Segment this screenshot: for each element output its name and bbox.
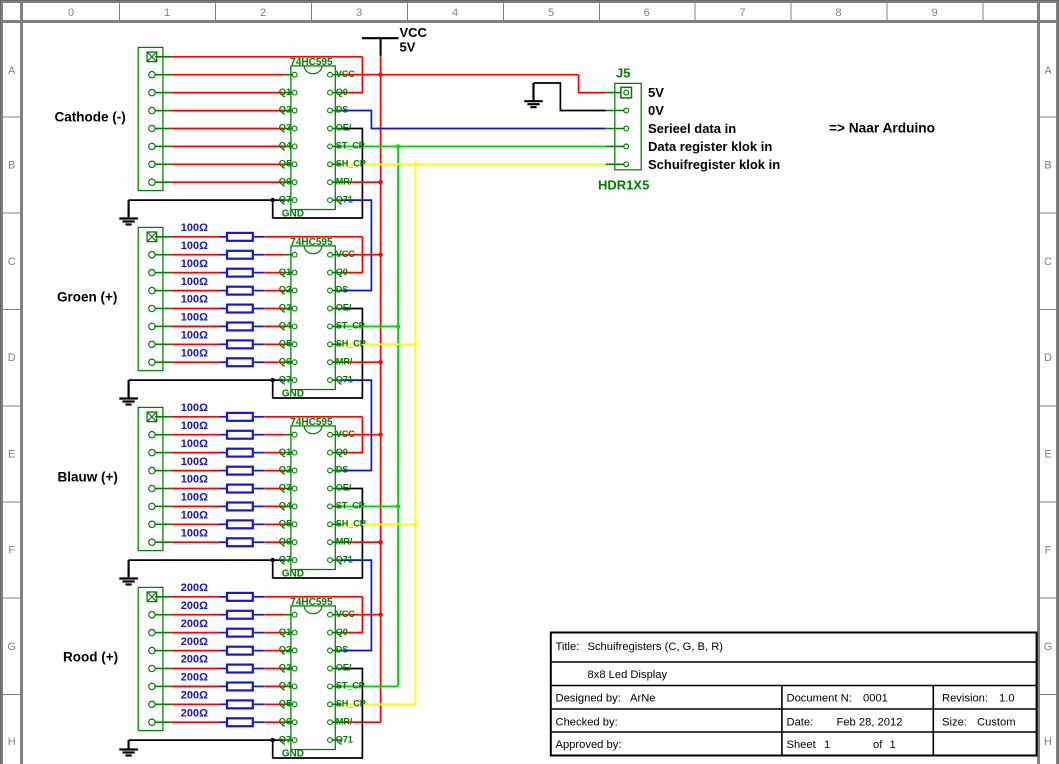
svg-text:Document N:: Document N: (787, 693, 852, 705)
svg-text:Q0: Q0 (336, 267, 348, 277)
svg-text:Q0: Q0 (336, 627, 348, 637)
svg-text:Q4: Q4 (279, 320, 292, 331)
svg-text:F: F (1045, 545, 1052, 557)
svg-text:100Ω: 100Ω (181, 312, 208, 324)
svg-text:OE/: OE/ (336, 303, 352, 313)
svg-text:Q6: Q6 (279, 535, 292, 546)
svg-text:Data register klok in: Data register klok in (648, 139, 772, 154)
svg-text:100Ω: 100Ω (181, 438, 208, 450)
svg-text:5: 5 (548, 7, 554, 19)
svg-text:74HC595: 74HC595 (290, 57, 333, 68)
svg-text:Q3: Q3 (279, 482, 292, 493)
svg-text:G: G (1044, 641, 1053, 653)
svg-text:74HC595: 74HC595 (290, 237, 333, 248)
svg-text:Q2: Q2 (279, 104, 292, 115)
svg-text:Q71: Q71 (336, 374, 353, 384)
svg-text:MR/: MR/ (336, 716, 353, 726)
svg-text:Title:: Title: (556, 641, 580, 653)
svg-text:Q5: Q5 (279, 518, 292, 529)
svg-text:H: H (1044, 736, 1052, 748)
svg-text:SH_CP: SH_CP (336, 159, 366, 169)
svg-text:Q7: Q7 (279, 373, 292, 384)
svg-text:Feb 28, 2012: Feb 28, 2012 (837, 717, 903, 729)
svg-text:8: 8 (835, 7, 841, 19)
svg-text:100Ω: 100Ω (181, 456, 208, 468)
svg-text:=> Naar Arduino: => Naar Arduino (829, 120, 935, 135)
svg-text:Q1: Q1 (279, 266, 292, 277)
svg-text:B: B (8, 160, 15, 172)
svg-text:Q1: Q1 (279, 86, 292, 97)
svg-text:100Ω: 100Ω (181, 474, 208, 486)
svg-text:100Ω: 100Ω (181, 402, 208, 414)
svg-text:200Ω: 200Ω (181, 582, 208, 594)
svg-text:Schuifregisters (C, G, B, R): Schuifregisters (C, G, B, R) (588, 641, 724, 653)
svg-text:ST_CP: ST_CP (336, 681, 365, 691)
svg-text:Q2: Q2 (279, 644, 292, 655)
svg-text:MR/: MR/ (336, 536, 353, 546)
svg-text:HDR1X5: HDR1X5 (598, 177, 649, 192)
svg-text:Size:: Size: (942, 717, 967, 729)
svg-text:Q6: Q6 (279, 355, 292, 366)
svg-text:F: F (8, 545, 15, 557)
svg-text:Cathode (-): Cathode (-) (55, 110, 126, 125)
svg-text:100Ω: 100Ω (181, 240, 208, 252)
svg-text:Q3: Q3 (279, 302, 292, 313)
svg-text:Blauw (+): Blauw (+) (58, 470, 118, 485)
svg-text:MR/: MR/ (336, 356, 353, 366)
svg-text:Q1: Q1 (279, 626, 292, 637)
svg-text:A: A (1044, 65, 1052, 77)
svg-text:Q5: Q5 (279, 698, 292, 709)
svg-text:4: 4 (452, 7, 458, 19)
svg-text:DS: DS (336, 465, 348, 475)
svg-text:Q4: Q4 (279, 140, 292, 151)
svg-text:100Ω: 100Ω (181, 527, 208, 539)
svg-text:C: C (1044, 256, 1052, 268)
svg-text:E: E (1044, 449, 1051, 461)
svg-text:Q5: Q5 (279, 338, 292, 349)
svg-text:1: 1 (824, 739, 830, 751)
svg-text:Q4: Q4 (279, 500, 292, 511)
svg-text:of: of (873, 739, 883, 751)
svg-text:C: C (8, 256, 16, 268)
svg-text:Q7: Q7 (279, 553, 292, 564)
svg-text:B: B (1044, 160, 1051, 172)
svg-text:E: E (8, 449, 15, 461)
svg-text:200Ω: 200Ω (181, 707, 208, 719)
svg-text:100Ω: 100Ω (181, 492, 208, 504)
svg-text:VCC: VCC (336, 69, 355, 79)
svg-text:100Ω: 100Ω (181, 330, 208, 342)
svg-text:Checked by:: Checked by: (556, 717, 618, 729)
svg-text:VCC: VCC (336, 249, 355, 259)
svg-text:Q0: Q0 (336, 87, 348, 97)
svg-text:GND: GND (282, 209, 304, 220)
svg-text:MR/: MR/ (336, 176, 353, 186)
svg-text:200Ω: 200Ω (181, 636, 208, 648)
svg-text:Q1: Q1 (279, 446, 292, 457)
svg-text:74HC595: 74HC595 (290, 597, 333, 608)
svg-text:Designed by:: Designed by: (556, 693, 621, 705)
svg-text:200Ω: 200Ω (181, 618, 208, 630)
svg-text:G: G (7, 641, 16, 653)
svg-text:OE/: OE/ (336, 123, 352, 133)
svg-text:Schuifregister klok in: Schuifregister klok in (648, 157, 780, 172)
svg-text:Q71: Q71 (336, 734, 353, 744)
svg-text:OE/: OE/ (336, 483, 352, 493)
svg-text:DS: DS (336, 285, 348, 295)
svg-text:VCC: VCC (336, 429, 355, 439)
svg-text:Custom: Custom (977, 717, 1016, 729)
svg-text:Q0: Q0 (336, 447, 348, 457)
svg-text:Q5: Q5 (279, 158, 292, 169)
svg-text:8x8 Led Display: 8x8 Led Display (588, 669, 668, 681)
svg-text:100Ω: 100Ω (181, 510, 208, 522)
svg-text:ST_CP: ST_CP (336, 141, 365, 151)
svg-text:7: 7 (739, 7, 745, 19)
svg-text:D: D (8, 352, 16, 364)
svg-text:Q2: Q2 (279, 464, 292, 475)
svg-text:Sheet: Sheet (787, 739, 817, 751)
svg-text:Groen (+): Groen (+) (57, 290, 117, 305)
svg-text:GND: GND (282, 749, 304, 760)
svg-text:100Ω: 100Ω (181, 258, 208, 270)
svg-text:100Ω: 100Ω (181, 276, 208, 288)
svg-text:200Ω: 200Ω (181, 690, 208, 702)
svg-text:ArNe: ArNe (630, 693, 656, 705)
svg-text:Q7: Q7 (279, 193, 292, 204)
svg-text:200Ω: 200Ω (181, 654, 208, 666)
svg-text:VCC: VCC (400, 25, 428, 40)
svg-text:3: 3 (356, 7, 362, 19)
svg-text:74HC595: 74HC595 (290, 417, 333, 428)
svg-text:DS: DS (336, 645, 348, 655)
svg-text:DS: DS (336, 105, 348, 115)
svg-text:6: 6 (644, 7, 650, 19)
svg-text:1: 1 (890, 739, 896, 751)
svg-text:5V: 5V (400, 39, 416, 54)
svg-text:GND: GND (282, 389, 304, 400)
svg-text:Q3: Q3 (279, 662, 292, 673)
svg-text:200Ω: 200Ω (181, 600, 208, 612)
svg-text:A: A (8, 65, 16, 77)
svg-text:Approved by:: Approved by: (556, 739, 622, 751)
svg-text:100Ω: 100Ω (181, 294, 208, 306)
svg-text:9: 9 (931, 7, 937, 19)
svg-text:J5: J5 (616, 66, 630, 81)
svg-text:Q71: Q71 (336, 194, 353, 204)
svg-text:SH_CP: SH_CP (336, 519, 366, 529)
svg-text:Revision:: Revision: (942, 693, 988, 705)
svg-text:Q6: Q6 (279, 715, 292, 726)
svg-text:1.0: 1.0 (999, 693, 1015, 705)
svg-text:Q3: Q3 (279, 122, 292, 133)
svg-text:SH_CP: SH_CP (336, 699, 366, 709)
svg-text:Q7: Q7 (279, 733, 292, 744)
svg-text:1: 1 (164, 7, 170, 19)
svg-text:2: 2 (260, 7, 266, 19)
svg-text:Q71: Q71 (336, 554, 353, 564)
svg-text:SH_CP: SH_CP (336, 339, 366, 349)
svg-text:H: H (8, 736, 16, 748)
svg-text:VCC: VCC (336, 609, 355, 619)
svg-text:Q2: Q2 (279, 284, 292, 295)
svg-text:5V: 5V (648, 85, 664, 100)
svg-text:OE/: OE/ (336, 663, 352, 673)
svg-text:Serieel data in: Serieel data in (648, 121, 736, 136)
svg-text:100Ω: 100Ω (181, 420, 208, 432)
svg-text:Rood (+): Rood (+) (63, 650, 118, 665)
svg-text:200Ω: 200Ω (181, 672, 208, 684)
svg-text:ST_CP: ST_CP (336, 321, 365, 331)
svg-text:0V: 0V (648, 103, 664, 118)
svg-text:Date:: Date: (787, 717, 814, 729)
svg-text:0001: 0001 (863, 693, 888, 705)
svg-text:D: D (1044, 352, 1052, 364)
svg-text:0: 0 (68, 7, 74, 19)
svg-text:100Ω: 100Ω (181, 347, 208, 359)
svg-text:GND: GND (282, 569, 304, 580)
svg-text:Q6: Q6 (279, 175, 292, 186)
svg-text:100Ω: 100Ω (181, 222, 208, 234)
svg-text:ST_CP: ST_CP (336, 501, 365, 511)
svg-text:Q4: Q4 (279, 680, 292, 691)
